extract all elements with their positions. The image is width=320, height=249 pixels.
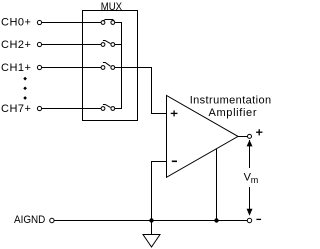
svg-text:Instrumentation: Instrumentation bbox=[190, 95, 272, 107]
svg-text:MUX: MUX bbox=[101, 1, 122, 13]
svg-text:CH1+: CH1+ bbox=[1, 62, 31, 74]
svg-text:CH7+: CH7+ bbox=[1, 103, 31, 115]
svg-text:m: m bbox=[251, 175, 258, 185]
svg-text:AIGND: AIGND bbox=[14, 214, 46, 226]
svg-text:CH0+: CH0+ bbox=[1, 17, 31, 29]
svg-text:Amplifier: Amplifier bbox=[209, 107, 258, 119]
svg-text:CH2+: CH2+ bbox=[1, 39, 31, 51]
